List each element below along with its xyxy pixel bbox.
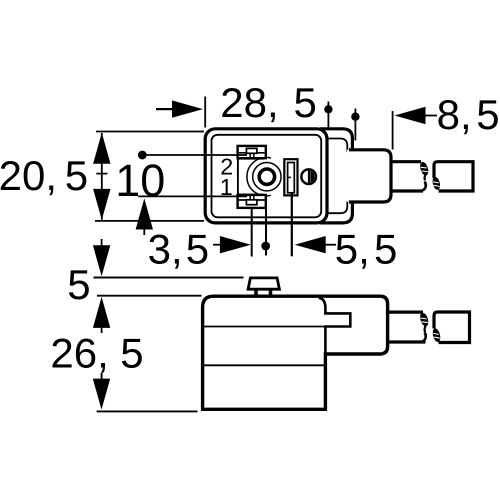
svg-text:8,: 8, — [437, 91, 472, 138]
svg-text:5,: 5, — [335, 226, 370, 273]
svg-text:5: 5 — [374, 226, 397, 273]
svg-text:3,: 3, — [148, 226, 183, 273]
svg-text:26,: 26, — [50, 330, 108, 377]
svg-text:5: 5 — [67, 261, 90, 308]
svg-text:5: 5 — [294, 79, 317, 126]
svg-text:1: 1 — [220, 174, 233, 200]
svg-text:5: 5 — [120, 330, 143, 377]
svg-text:28,: 28, — [220, 79, 278, 126]
svg-text:5: 5 — [476, 91, 499, 138]
svg-text:20,: 20, — [0, 152, 57, 199]
svg-text:5: 5 — [186, 226, 209, 273]
svg-text:10: 10 — [115, 155, 165, 206]
svg-text:5: 5 — [65, 152, 88, 199]
